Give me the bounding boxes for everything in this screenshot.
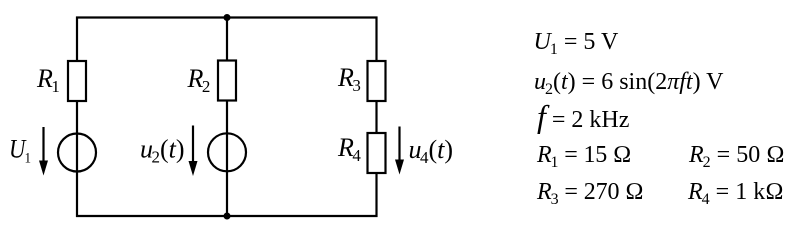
resistor R1 (68, 61, 86, 101)
wire bottom horizontal (76, 215, 378, 217)
wire left branch (76, 17, 78, 218)
svg-text:R2 = 50 Ω: R2 = 50 Ω (688, 142, 785, 171)
svg-text:R2: R2 (187, 64, 211, 96)
label R4 (337, 133, 361, 165)
label R2 (187, 64, 211, 96)
wire right branch (375, 17, 377, 218)
arrow u2 voltage (189, 126, 198, 177)
value label f = 2 kHz (537, 98, 629, 134)
label u4(t) (409, 135, 454, 167)
svg-text:R4: R4 (337, 133, 361, 165)
svg-text:u4(t): u4(t) (409, 135, 454, 167)
label u2(t) (140, 135, 185, 167)
node bottom junction (224, 213, 231, 220)
voltage source U1 (58, 134, 96, 172)
value label U1 = 5 V (534, 29, 619, 58)
node top junction (224, 14, 231, 21)
svg-text:R3: R3 (337, 63, 361, 95)
arrow u4 voltage (395, 127, 404, 175)
arrow U1 voltage (39, 127, 48, 176)
svg-text:R1 = 15 Ω: R1 = 15 Ω (536, 142, 631, 171)
svg-text:u2(t) = 6 sin(2πft) V: u2(t) = 6 sin(2πft) V (534, 69, 724, 98)
value label R3 = 270 Ohm (536, 179, 644, 208)
value label R2 = 50 Ohm (688, 142, 785, 171)
svg-text:u2(t): u2(t) (140, 135, 185, 167)
resistor R2 (218, 61, 236, 101)
svg-text:R3 = 270 Ω: R3 = 270 Ω (536, 179, 644, 208)
value label u2(t) = 6 sin(2pi f t) V (534, 69, 724, 98)
resistor R4 (368, 133, 386, 173)
svg-text:R1: R1 (36, 64, 60, 96)
value label R1 = 15 Ohm (536, 142, 631, 171)
label R1 (36, 64, 60, 96)
label U1 (9, 135, 31, 167)
wire middle branch (226, 17, 228, 218)
svg-text:f = 2 kHz: f = 2 kHz (537, 98, 629, 134)
svg-text:R4 = 1 kΩ: R4 = 1 kΩ (687, 179, 784, 208)
value label R4 = 1 kOhm (687, 179, 784, 208)
label R3 (337, 63, 361, 95)
resistor R3 (368, 61, 386, 101)
voltage source u2 (208, 133, 246, 171)
wire top horizontal (76, 16, 378, 18)
svg-text:U1: U1 (9, 135, 31, 167)
svg-text:U1 = 5 V: U1 = 5 V (534, 29, 619, 58)
